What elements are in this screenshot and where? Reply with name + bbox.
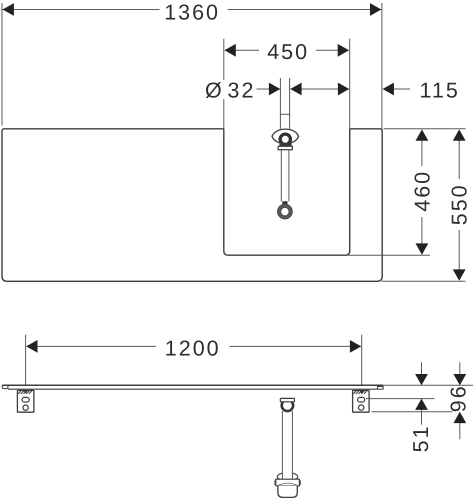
svg-text:96: 96 (446, 384, 470, 412)
svg-text:550: 550 (448, 183, 472, 225)
svg-text:1360: 1360 (164, 0, 220, 24)
svg-text:51: 51 (409, 424, 433, 452)
svg-text:Ø: Ø (205, 79, 224, 103)
svg-text:115: 115 (420, 79, 460, 103)
svg-text:450: 450 (267, 40, 309, 64)
svg-text:1200: 1200 (165, 337, 221, 361)
svg-text:460: 460 (410, 170, 434, 212)
svg-text:32: 32 (228, 79, 256, 103)
